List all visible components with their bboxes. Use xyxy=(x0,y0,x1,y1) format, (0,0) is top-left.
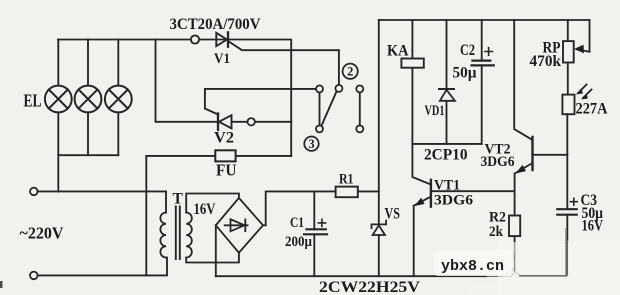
svg-text:2CP10: 2CP10 xyxy=(424,147,468,164)
svg-text:ybx8.cn: ybx8.cn xyxy=(441,258,504,275)
svg-text:C1: C1 xyxy=(290,215,304,231)
svg-text:3DG6: 3DG6 xyxy=(481,154,515,170)
svg-text:VT1: VT1 xyxy=(434,178,460,194)
svg-text:200µ: 200µ xyxy=(285,234,312,250)
svg-text:V2: V2 xyxy=(214,130,234,147)
svg-text:470k: 470k xyxy=(530,53,562,70)
svg-text:2: 2 xyxy=(347,65,353,79)
svg-text:3CT20A/700V: 3CT20A/700V xyxy=(170,16,261,33)
svg-text:VS: VS xyxy=(385,206,401,223)
svg-text:2k: 2k xyxy=(489,224,504,240)
svg-text:V1: V1 xyxy=(214,51,230,67)
svg-text:3DG6: 3DG6 xyxy=(434,193,474,209)
svg-text:227A: 227A xyxy=(576,101,609,118)
svg-text:EL: EL xyxy=(24,91,42,111)
svg-text:VD1: VD1 xyxy=(425,103,445,119)
svg-text:C2: C2 xyxy=(460,42,475,59)
svg-text:T: T xyxy=(173,190,184,207)
svg-text:16V: 16V xyxy=(582,218,604,235)
svg-text:FU: FU xyxy=(216,161,237,180)
svg-text:16V: 16V xyxy=(194,201,217,218)
svg-text:~220V: ~220V xyxy=(20,224,65,243)
svg-text:KA: KA xyxy=(387,43,409,60)
svg-text:R1: R1 xyxy=(339,171,354,187)
svg-text:50µ: 50µ xyxy=(453,65,477,82)
svg-text:3: 3 xyxy=(308,137,314,151)
svg-text:2CW22H25V: 2CW22H25V xyxy=(319,279,420,295)
